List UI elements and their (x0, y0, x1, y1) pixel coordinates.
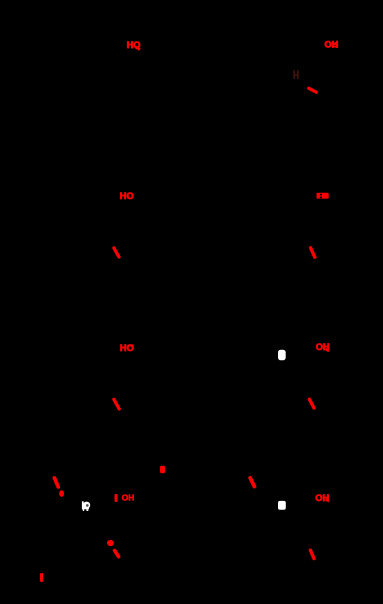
methoxy O-11 (dot, bottom left) (107, 540, 114, 546)
red bond half S3 (right ring O) (311, 248, 315, 257)
red bond half S7 (bottom middle) (250, 478, 254, 487)
white halo W2 (bottom-left atom label) (82, 501, 90, 511)
hydroxyl HO-1 (top left molecule) (127, 40, 141, 50)
hydroxyl OH-2 (top right molecule) (324, 39, 338, 49)
svg-text:HO: HO (120, 191, 134, 201)
ether O-4 (right molecule, with double bars) (317, 193, 329, 199)
hydroxyl OH-10 (bottom right) (315, 493, 329, 503)
hydroxyl OH-6 (right molecule lower) (316, 342, 330, 352)
white halo W1 (right molecule atom label) (278, 350, 286, 360)
red bond half S1 (309, 88, 317, 92)
carbonyl O-8 (dot) (59, 490, 64, 497)
red bond half S8 (115, 551, 119, 557)
svg-text:HO: HO (120, 343, 134, 353)
red bond half S9 (bottom right) (310, 550, 314, 558)
ester O-7 (red square) (160, 466, 165, 473)
white halo W3 (bottom-right atom label) (278, 501, 286, 510)
carbonyl bar + hydroxyl OH-9 (bottom left) (115, 493, 135, 503)
red bond half S2 (left ring O) (114, 248, 119, 257)
hydroxyl HO-5 (left molecule lower) (120, 343, 134, 353)
carbonyl double-bond bar S10 (bottom far left) (40, 573, 43, 582)
svg-text:OH: OH (122, 493, 135, 503)
hydroxyl HO-3 (left molecule middle) (120, 191, 134, 201)
red bond half S6 (carbonyl, bottom left) (54, 478, 58, 487)
red bond half S4 (left glycosidic O) (114, 399, 119, 409)
stereo H label (dark red) (293, 70, 299, 79)
red bond half S5 (right glycosidic O) (309, 399, 314, 408)
dark centre of W2 (86, 504, 89, 507)
